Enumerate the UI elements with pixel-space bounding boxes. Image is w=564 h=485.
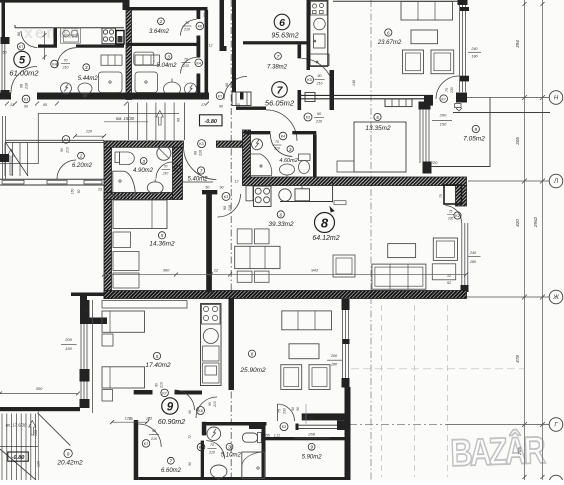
svg-text:70: 70 — [185, 21, 189, 25]
svg-text:240: 240 — [469, 251, 477, 255]
svg-text:90: 90 — [310, 416, 314, 420]
svg-text:K2: K2 — [282, 425, 286, 429]
svg-text:90: 90 — [194, 151, 198, 155]
svg-text:70: 70 — [184, 58, 188, 62]
svg-text:9: 9 — [310, 445, 313, 450]
svg-text:6: 6 — [387, 30, 390, 35]
svg-text:56.05m2: 56.05m2 — [265, 99, 295, 108]
svg-text:7: 7 — [200, 168, 203, 173]
svg-text:120: 120 — [34, 429, 38, 436]
svg-text:300: 300 — [36, 386, 43, 391]
svg-text:20.42m2: 20.42m2 — [56, 460, 83, 467]
svg-text:478: 478 — [515, 355, 520, 363]
svg-text:90: 90 — [152, 429, 156, 433]
svg-text:K4: K4 — [199, 446, 203, 450]
svg-text:K2: K2 — [306, 116, 310, 120]
svg-text:2: 2 — [79, 154, 83, 159]
svg-text:64.12m2: 64.12m2 — [312, 235, 339, 242]
svg-text:180: 180 — [470, 260, 477, 264]
svg-text:75: 75 — [278, 409, 282, 413]
svg-text:Л: Л — [553, 179, 559, 185]
svg-text:6м. 15/30: 6м. 15/30 — [116, 116, 135, 121]
svg-text:12: 12 — [235, 180, 239, 184]
svg-text:90: 90 — [208, 402, 212, 406]
svg-text:K7: K7 — [144, 442, 148, 446]
svg-text:K3: K3 — [24, 98, 28, 102]
svg-text:вх. 17.6/30: вх. 17.6/30 — [6, 423, 27, 428]
svg-text:3: 3 — [142, 159, 145, 164]
svg-text:25: 25 — [147, 417, 152, 421]
svg-text:K7: K7 — [162, 392, 166, 396]
svg-text:394: 394 — [515, 40, 520, 48]
svg-text:210: 210 — [273, 147, 280, 151]
svg-text:70: 70 — [64, 59, 68, 63]
svg-text:90: 90 — [220, 185, 224, 189]
svg-text:7: 7 — [277, 54, 280, 59]
svg-text:120: 120 — [86, 130, 93, 134]
svg-text:2962: 2962 — [533, 216, 538, 228]
svg-text:210: 210 — [162, 172, 169, 176]
svg-text:200: 200 — [439, 113, 447, 118]
svg-text:6: 6 — [280, 212, 283, 217]
svg-text:8: 8 — [67, 451, 70, 456]
svg-text:3: 3 — [167, 54, 170, 59]
svg-text:90: 90 — [177, 118, 181, 122]
svg-text:90: 90 — [188, 410, 192, 414]
svg-text:3.64m2: 3.64m2 — [149, 29, 170, 35]
svg-text:K4: K4 — [52, 63, 56, 67]
svg-text:12: 12 — [447, 274, 451, 278]
svg-text:25.90m2: 25.90m2 — [239, 367, 266, 374]
svg-text:K6: K6 — [198, 25, 202, 29]
svg-text:H: H — [554, 96, 559, 102]
svg-text:120: 120 — [125, 416, 132, 421]
svg-text:360: 360 — [163, 268, 170, 273]
svg-text:K3: K3 — [224, 195, 228, 199]
svg-text:205: 205 — [517, 447, 522, 456]
svg-text:K7: K7 — [218, 94, 222, 98]
svg-text:72: 72 — [188, 435, 192, 439]
svg-text:150: 150 — [440, 122, 447, 127]
svg-text:90: 90 — [303, 416, 307, 420]
svg-text:180: 180 — [471, 55, 478, 59]
svg-text:5.90m2: 5.90m2 — [302, 455, 323, 461]
svg-text:95.63m2: 95.63m2 — [271, 33, 298, 40]
svg-text:K4: K4 — [196, 61, 200, 65]
svg-text:4.60m2: 4.60m2 — [279, 158, 297, 164]
svg-text:90: 90 — [155, 383, 159, 387]
svg-text:180: 180 — [331, 363, 338, 367]
svg-text:Ж: Ж — [552, 295, 559, 301]
svg-text:60.90m2: 60.90m2 — [158, 419, 185, 426]
svg-text:.50: .50 — [1, 51, 7, 55]
svg-text:5: 5 — [161, 233, 164, 238]
svg-text:90: 90 — [188, 462, 192, 466]
svg-text:3: 3 — [289, 147, 292, 152]
svg-text:6: 6 — [251, 352, 254, 357]
svg-text:6.60m2: 6.60m2 — [161, 468, 182, 474]
svg-text:13.35m2: 13.35m2 — [365, 125, 391, 132]
svg-text:70: 70 — [164, 165, 168, 169]
svg-text:K7: K7 — [19, 45, 23, 49]
svg-text:-0.80: -0.80 — [12, 455, 25, 461]
svg-text:5: 5 — [19, 55, 26, 67]
svg-text:268: 268 — [307, 432, 315, 437]
svg-text:6: 6 — [279, 17, 285, 29]
svg-text:K4: K4 — [64, 138, 68, 142]
svg-text:90: 90 — [203, 13, 207, 17]
svg-text:K4: K4 — [281, 135, 285, 139]
svg-text:10: 10 — [236, 103, 240, 107]
svg-text:210: 210 — [199, 150, 203, 157]
svg-text:90: 90 — [24, 105, 28, 109]
svg-text:210: 210 — [316, 82, 323, 86]
svg-text:7.38m2: 7.38m2 — [267, 65, 288, 71]
svg-text:90: 90 — [296, 407, 300, 411]
svg-text:420: 420 — [515, 219, 520, 227]
svg-text:90: 90 — [223, 206, 227, 210]
svg-text:90: 90 — [219, 105, 223, 109]
svg-text:50: 50 — [291, 407, 295, 411]
svg-text:14.36m2: 14.36m2 — [149, 241, 175, 248]
svg-text:3: 3 — [228, 445, 231, 450]
svg-text:7.05m2: 7.05m2 — [463, 136, 485, 143]
svg-text:4.90m2: 4.90m2 — [133, 168, 154, 174]
svg-text:210: 210 — [150, 437, 157, 441]
svg-text:210: 210 — [315, 120, 323, 124]
svg-text:140: 140 — [352, 79, 356, 86]
svg-text:12: 12 — [209, 44, 213, 48]
svg-text:39.33m2: 39.33m2 — [268, 221, 294, 228]
svg-text:K2: K2 — [455, 214, 459, 218]
svg-text:50: 50 — [205, 185, 209, 189]
svg-text:3: 3 — [85, 65, 88, 70]
svg-text:90: 90 — [60, 148, 64, 152]
svg-text:90: 90 — [225, 83, 229, 87]
svg-text:23.67m2: 23.67m2 — [377, 40, 402, 46]
svg-text:52: 52 — [447, 281, 451, 285]
svg-text:29: 29 — [97, 188, 102, 192]
svg-text:210: 210 — [66, 147, 70, 154]
svg-text:210: 210 — [183, 28, 190, 32]
svg-text:80: 80 — [85, 309, 89, 313]
svg-text:50: 50 — [77, 190, 81, 194]
svg-text:943: 943 — [311, 268, 318, 273]
svg-text:210: 210 — [160, 382, 164, 389]
svg-text:230: 230 — [450, 87, 454, 94]
svg-text:K4: K4 — [175, 167, 179, 171]
svg-text:255: 255 — [263, 434, 270, 438]
svg-text:6.20m2: 6.20m2 — [72, 163, 93, 169]
svg-text:9: 9 — [475, 127, 478, 132]
svg-text:200: 200 — [330, 354, 338, 358]
svg-text:220: 220 — [430, 160, 438, 165]
svg-text:1.12: 1.12 — [274, 434, 280, 438]
svg-text:9: 9 — [167, 402, 174, 414]
svg-text:5: 5 — [376, 115, 379, 120]
svg-text:5.10m2: 5.10m2 — [221, 453, 242, 459]
svg-text:210: 210 — [62, 66, 69, 70]
svg-text:K3: K3 — [199, 142, 203, 146]
svg-text:90: 90 — [20, 84, 24, 88]
svg-text:K8: K8 — [198, 409, 202, 413]
svg-text:70: 70 — [275, 140, 279, 144]
svg-text:210: 210 — [25, 83, 29, 90]
svg-text:230: 230 — [283, 408, 287, 415]
svg-text:K7: K7 — [441, 97, 445, 101]
svg-text:65: 65 — [43, 103, 47, 107]
svg-text:210: 210 — [182, 64, 189, 68]
svg-text:K3: K3 — [307, 78, 311, 82]
svg-text:5.44m2: 5.44m2 — [78, 76, 99, 82]
svg-text:240: 240 — [470, 47, 478, 51]
svg-text:75: 75 — [449, 210, 453, 214]
svg-text:2: 2 — [159, 19, 163, 24]
svg-text:12: 12 — [214, 267, 219, 272]
svg-text:210: 210 — [208, 451, 215, 455]
svg-text:210: 210 — [228, 205, 232, 212]
svg-text:BAZÂR: BAZÂR — [450, 427, 547, 474]
svg-text:-0.80: -0.80 — [204, 119, 217, 125]
svg-text:230: 230 — [447, 217, 454, 221]
svg-text:210: 210 — [213, 401, 217, 408]
svg-text:17.40m2: 17.40m2 — [145, 362, 171, 369]
svg-text:5: 5 — [156, 354, 159, 359]
svg-text:70: 70 — [439, 194, 443, 198]
svg-text:7: 7 — [170, 459, 173, 464]
svg-text:8: 8 — [321, 216, 329, 231]
svg-text:70: 70 — [210, 443, 214, 447]
svg-text:150: 150 — [71, 189, 75, 195]
svg-text:90: 90 — [318, 74, 322, 78]
svg-text:75: 75 — [445, 88, 449, 92]
svg-text:305: 305 — [515, 137, 520, 145]
svg-text:200: 200 — [64, 337, 72, 342]
svg-text:150: 150 — [65, 346, 72, 351]
